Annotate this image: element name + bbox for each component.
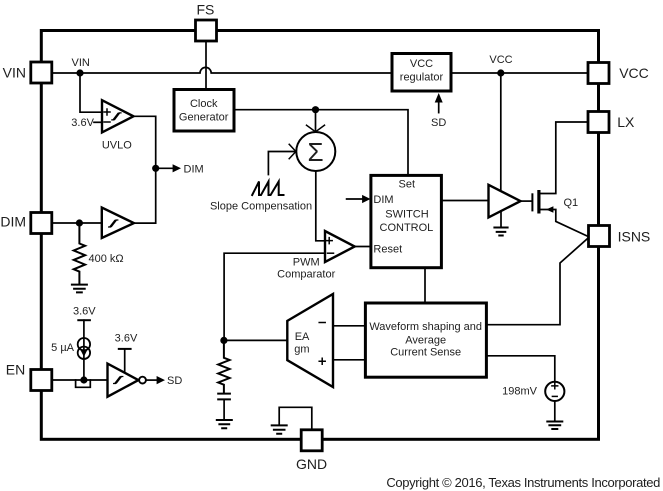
svg-text:SWITCH: SWITCH [385,209,428,221]
transistor Q1 gate bar [531,194,533,210]
node DIM pin junction dot [76,219,83,226]
amplifier EA gm [287,294,333,387]
svg-text:PWM: PWM [293,256,320,268]
op-amp PWM comparator [325,231,355,262]
svg-text:ISNS: ISNS [618,228,651,244]
wire sigma output to PWM comparator + input [316,171,325,241]
wire EA gm - input to waveform box [333,325,365,327]
svg-text:SD: SD [431,117,446,129]
svg-text:Σ: Σ [308,137,324,167]
wire clock node arrow into sigma [315,110,317,131]
wire SD output arrow [146,379,157,381]
svg-text:Current Sense: Current Sense [390,347,461,359]
node EN junction dot [80,376,87,383]
svg-text:Reset: Reset [373,244,402,256]
resistor compensation [218,340,229,392]
wire VIN pin to VCC regulator (with hop over FS wire) [52,67,392,73]
wire slope compensation arrow into sigma [268,152,294,175]
svg-text:DIM: DIM [373,194,393,206]
pin VCC [588,63,609,84]
svg-text:VIN: VIN [72,57,90,69]
VCC regulator box [392,54,451,92]
svg-text:DIM: DIM [184,163,204,175]
wire EN pin to inverter [52,379,107,381]
svg-text:Q1: Q1 [564,197,579,209]
notch under EN wire [76,380,91,387]
capacitor compensation [218,394,230,400]
node clock junction dot [312,106,319,113]
pin FS [196,20,217,41]
svg-text:LX: LX [617,114,635,130]
svg-text:VIN: VIN [3,65,26,81]
svg-text:EN: EN [6,362,25,378]
pin GND [301,430,322,451]
transistor Q1 gate wire [521,200,532,202]
pin LX [588,112,609,133]
svg-text:Generator: Generator [179,111,229,123]
wire EA gm + input to waveform box [333,359,365,361]
wire 3.6V to UVLO - input [94,121,102,123]
slope compensation sawtooth waveform [252,182,283,196]
wire PWM comparator output to Reset [355,246,371,248]
svg-text:regulator: regulator [400,71,444,83]
svg-text:Comparator: Comparator [277,269,335,281]
buffer gate driver [489,185,521,218]
svg-text:198mV: 198mV [502,385,538,397]
transistor Q1 source wire to ISNS pin [539,210,589,238]
inverter EN schmitt [108,364,139,397]
ground (below 400k resistor) [72,285,87,293]
svg-text:VCC: VCC [410,58,433,70]
wire ISNS pin to waveform shaping box [486,237,589,325]
svg-text:400 kΩ: 400 kΩ [89,253,124,265]
svg-text:Waveform shaping and: Waveform shaping and [369,321,482,333]
svg-text:VCC: VCC [619,65,649,81]
wire DIM arrow into SWITCH CONTROL [347,198,363,200]
wire FS pin to Clock Generator [205,41,207,90]
wire Clock Generator to SWITCH CONTROL Set [234,110,408,176]
node compensation junction dot [220,337,227,344]
svg-text:CONTROL: CONTROL [380,222,434,234]
summing node sigma [296,132,335,171]
wire DIM signal arrow [156,167,173,169]
svg-text:3.6V: 3.6V [115,332,138,344]
wire GND pin hook to ground [279,407,312,430]
pin EN [31,370,52,391]
IC outer border [41,31,598,440]
wire SWITCH CONTROL to gate driver [441,200,488,202]
svg-text:SD: SD [167,375,182,387]
svg-text:gm: gm [294,343,309,355]
svg-text:VCC: VCC [489,54,512,66]
pin DIM [31,213,52,234]
wire SD arrow into VCC regulator [438,102,440,113]
ground (below gate driver) [500,211,502,227]
pin ISNS [589,226,610,247]
svg-text:FS: FS [196,2,214,18]
resistor 400 kOhm [74,223,85,284]
transistor Q1 channel bar [537,190,540,214]
svg-text:UVLO: UVLO [102,139,132,151]
wire VCC regulator output to VCC pin [451,72,588,74]
svg-text:DIM: DIM [0,214,26,230]
svg-text:EA: EA [295,331,310,343]
waveform shaping box [365,303,486,377]
wire DIM pin to DIM buffer input [52,222,102,224]
transistor Q1 drain wire to LX pin [539,122,588,194]
svg-text:Set: Set [399,178,416,190]
switch control box [371,175,442,267]
svg-text:Slope Compensation: Slope Compensation [210,200,312,212]
buffer DIM schmitt [102,208,134,239]
pin VIN [31,62,52,83]
ground (near GND pin) [272,425,287,433]
wire UVLO output to DIM node and down to DIM buffer output [134,116,156,223]
svg-text:3.6V: 3.6V [71,117,94,129]
wire capacitor to ground [223,399,225,419]
ground (below 198mV source) [554,401,556,421]
wire EA gm output to compensation node and PWM - input [224,253,325,340]
node DIM junction dot [152,165,159,172]
node VIN junction dot [76,69,83,76]
inverter output bubble [139,377,146,384]
wire VIN node to UVLO + input [80,73,102,112]
wire SWITCH CONTROL to waveform shaping box [424,268,426,303]
svg-text:Copyright © 2016, Texas Instru: Copyright © 2016, Texas Instruments Inco… [386,475,660,490]
svg-text:5 µA: 5 µA [51,342,75,354]
voltage source 198mV [545,382,564,401]
clock generator box [174,90,234,132]
svg-text:3.6V: 3.6V [73,306,96,318]
ground (below compensation capacitor) [217,420,232,428]
wire VCC node down to gate driver [500,73,502,191]
svg-text:Average: Average [405,335,446,347]
transistor Q1 source arrowhead [546,206,553,213]
node VCC junction dot [497,69,504,76]
op-amp UVLO comparator [102,100,134,132]
wire waveform box to 198mV source [486,356,554,382]
svg-text:Clock: Clock [190,98,218,110]
svg-text:GND: GND [296,456,327,472]
